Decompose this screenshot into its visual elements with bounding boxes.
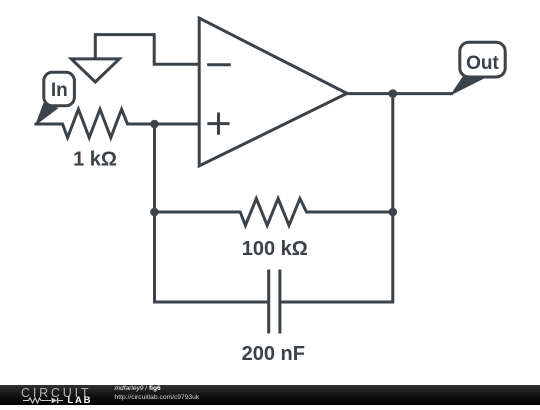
op-amp non-inverting input plus symbol <box>209 114 228 133</box>
op-amp inverting input minus symbol <box>209 63 230 66</box>
footer meta text <box>115 385 200 401</box>
svg-text:200 nF: 200 nF <box>242 343 305 365</box>
wire: node A down to feedback row <box>153 124 156 212</box>
junction dot output node <box>389 89 398 98</box>
Out flag pointer <box>451 76 485 95</box>
svg-text:100 kΩ: 100 kΩ <box>242 238 308 260</box>
op-amp U1 <box>199 18 347 166</box>
capacitor C1 plates <box>269 271 280 332</box>
In flag pointer <box>36 104 58 125</box>
CircuitLab logo wordmark LAB <box>68 396 93 405</box>
wire: In flag through resistor R1 to op-amp non-inverting input (node A junction dot drawn separately) <box>36 109 198 137</box>
svg-text:Out: Out <box>466 53 499 74</box>
svg-text:In: In <box>51 80 68 101</box>
CircuitLab logo glyph: resistor zigzag and diode <box>23 397 67 404</box>
junction dot left feedback node <box>150 208 159 217</box>
wire: op-amp output to Out flag <box>347 92 452 95</box>
Out flag box <box>460 42 505 77</box>
wire: left column down to capacitor row <box>155 212 268 302</box>
In flag box <box>44 72 75 106</box>
footer bar <box>0 385 540 406</box>
CircuitLab logo wordmark CIRCUIT <box>21 387 91 399</box>
ground <box>71 59 119 82</box>
wire: capacitor right side up to output node <box>281 94 392 302</box>
wire: feedback row left segment with resistor R2 zigzag <box>155 199 393 226</box>
junction dot right feedback node <box>389 208 398 217</box>
node A junction dot (R1 / op-amp + input / feedback) <box>150 120 159 129</box>
wire: ground net to op-amp inverting input <box>95 35 197 65</box>
svg-text:1 kΩ: 1 kΩ <box>73 148 117 170</box>
